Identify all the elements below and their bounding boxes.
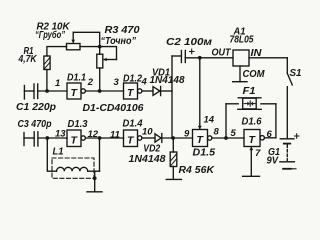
inverter D1.5 xyxy=(193,130,212,147)
wire VD1 cathode to riser xyxy=(161,90,172,92)
wire pin 10 to VD2 anode xyxy=(142,137,155,139)
wire R3 bottom to node B xyxy=(99,68,101,91)
terminal X2 (bottom probe input) xyxy=(23,133,25,146)
wire bottom row VD2 cathode to pin 9 xyxy=(162,137,193,139)
inverter D1.4 xyxy=(124,130,142,147)
wire +V to pin 14 of D1.5 xyxy=(198,58,202,130)
inverter D1.2 xyxy=(124,83,142,99)
wire node A to R3 top xyxy=(99,47,101,55)
svg-text:R4 56K: R4 56K xyxy=(179,165,215,176)
svg-text:4: 4 xyxy=(141,77,148,88)
svg-text:C3 470p: C3 470p xyxy=(18,119,52,130)
wire R4 top lead xyxy=(172,138,174,152)
wire R3 wiper loop to node A xyxy=(100,47,117,60)
capacitor C1 xyxy=(34,84,38,99)
svg-text:9V: 9V xyxy=(267,156,280,167)
junction shield/ground xyxy=(93,176,97,180)
svg-text:D1-CD40106: D1-CD40106 xyxy=(83,103,144,114)
svg-text:VD2: VD2 xyxy=(143,144,160,155)
svg-text:R3 470: R3 470 xyxy=(105,25,140,36)
junction C3/L1 node xyxy=(45,136,49,140)
svg-text:12: 12 xyxy=(88,129,99,140)
R3 wiper arrow xyxy=(103,58,117,62)
wire C2 left lead xyxy=(172,55,181,57)
wire R1 top to R2 left terminal xyxy=(47,47,67,56)
wire pin 8 to pin 5 xyxy=(212,137,244,139)
wire X1 to C1 xyxy=(24,90,34,92)
terminal X1 (top probe input) xyxy=(23,86,25,100)
junction L1 tap node xyxy=(98,136,102,140)
diode VD2 xyxy=(155,134,162,143)
svg-text:10: 10 xyxy=(142,127,153,138)
svg-text:L1: L1 xyxy=(53,146,64,157)
svg-text:5: 5 xyxy=(231,128,237,139)
wire R2 wiper to node A xyxy=(73,32,100,46)
wire C2 to A1 OUT xyxy=(185,57,233,59)
wire riser C2 / VD1 / R4 node xyxy=(171,56,173,138)
wire C3 to pin 13 xyxy=(38,137,67,139)
svg-text:D1.6: D1.6 xyxy=(242,117,262,128)
battery G1 xyxy=(280,139,295,169)
svg-text:S1: S1 xyxy=(290,68,302,79)
common bar (pin 7 ground) xyxy=(243,175,260,177)
wire F1 right vertical xyxy=(275,104,277,138)
wire L1 to ground xyxy=(94,171,96,191)
svg-text:1: 1 xyxy=(55,78,60,89)
junction F1 tap xyxy=(224,136,228,140)
diode VD1 xyxy=(153,86,161,95)
svg-text:C1 220p: C1 220p xyxy=(16,102,56,113)
regulator A1 78L05 xyxy=(233,50,249,66)
svg-text:“Грубо”: “Грубо” xyxy=(35,29,65,41)
node C1/R1 junction xyxy=(45,89,49,93)
wire R1 bottom lead xyxy=(46,70,48,92)
wire pin 2 to pin 3 xyxy=(85,90,123,92)
svg-text:“Точно”: “Точно” xyxy=(101,36,137,47)
wire F1 right lead xyxy=(261,103,276,105)
label + (battery) xyxy=(295,134,299,138)
potentiometer R2 body xyxy=(67,44,81,50)
svg-text:7: 7 xyxy=(255,148,261,159)
common bar (R4 ground) xyxy=(166,178,181,180)
resistor R4 xyxy=(170,152,177,167)
wire L1 right to tap xyxy=(88,170,100,172)
inductor L1 xyxy=(57,167,88,171)
potentiometer R3 body xyxy=(97,54,103,68)
R2 wiper arrow xyxy=(71,32,75,43)
wire A1 IN to S1 xyxy=(249,57,287,59)
label - (battery) xyxy=(292,168,296,170)
switch S1 xyxy=(287,58,292,139)
wire C1 to pin 1 of D1.1 xyxy=(38,90,67,92)
svg-text:OUT: OUT xyxy=(212,47,232,58)
common bar (L1 ground) xyxy=(87,191,102,193)
wire tap riser xyxy=(99,138,101,171)
inverter D1.6 xyxy=(244,130,264,147)
wire R4 bottom lead xyxy=(172,167,174,180)
svg-text:COM: COM xyxy=(243,69,266,80)
inverter D1.1 xyxy=(67,83,85,99)
svg-text:1N4148: 1N4148 xyxy=(129,154,166,165)
svg-text:14: 14 xyxy=(204,115,215,126)
svg-text:D1.3: D1.3 xyxy=(68,119,88,130)
wire X2 to C3 xyxy=(24,137,34,139)
piezo emitter F1 xyxy=(238,98,261,110)
svg-text:D1.5: D1.5 xyxy=(193,148,216,159)
wire F1 left lead xyxy=(226,103,238,105)
svg-text:3: 3 xyxy=(114,77,120,88)
wire COM lead xyxy=(239,66,241,82)
node B junction xyxy=(98,89,102,93)
node +V junction xyxy=(198,56,202,60)
svg-text:D1.4: D1.4 xyxy=(123,118,143,129)
svg-text:F1: F1 xyxy=(243,86,256,97)
wire pin 7 to common xyxy=(249,147,253,177)
svg-text:2: 2 xyxy=(87,77,94,88)
shield of L1 (dashed) xyxy=(52,158,94,178)
inverter D1.3 xyxy=(67,130,85,147)
junction R4/VD1 node xyxy=(171,136,175,140)
svg-text:C2 100м: C2 100м xyxy=(166,37,213,48)
svg-text:D1.1: D1.1 xyxy=(67,73,86,84)
svg-text:8: 8 xyxy=(214,127,220,138)
resistor R1 xyxy=(44,56,50,70)
wire pin 12 to pin 11 xyxy=(85,137,123,139)
svg-text:11: 11 xyxy=(110,130,120,141)
wire L1 left branch xyxy=(47,138,56,171)
svg-text:4,7K: 4,7K xyxy=(18,54,38,65)
wire pin 6 to F1 right branch xyxy=(264,137,276,139)
svg-text:1N4148: 1N4148 xyxy=(150,75,185,86)
svg-text:D1.2: D1.2 xyxy=(123,73,142,84)
svg-text:78L05: 78L05 xyxy=(230,35,254,46)
node A junction xyxy=(98,45,102,49)
wire pin 4 to VD1 anode xyxy=(142,90,153,92)
capacitor C2 (electrolytic) xyxy=(181,49,194,62)
wire F1 left vertical xyxy=(225,104,227,138)
wire R2 right terminal to node A xyxy=(80,46,100,48)
capacitor C3 xyxy=(34,132,38,146)
common bar under A1 COM xyxy=(233,81,247,83)
